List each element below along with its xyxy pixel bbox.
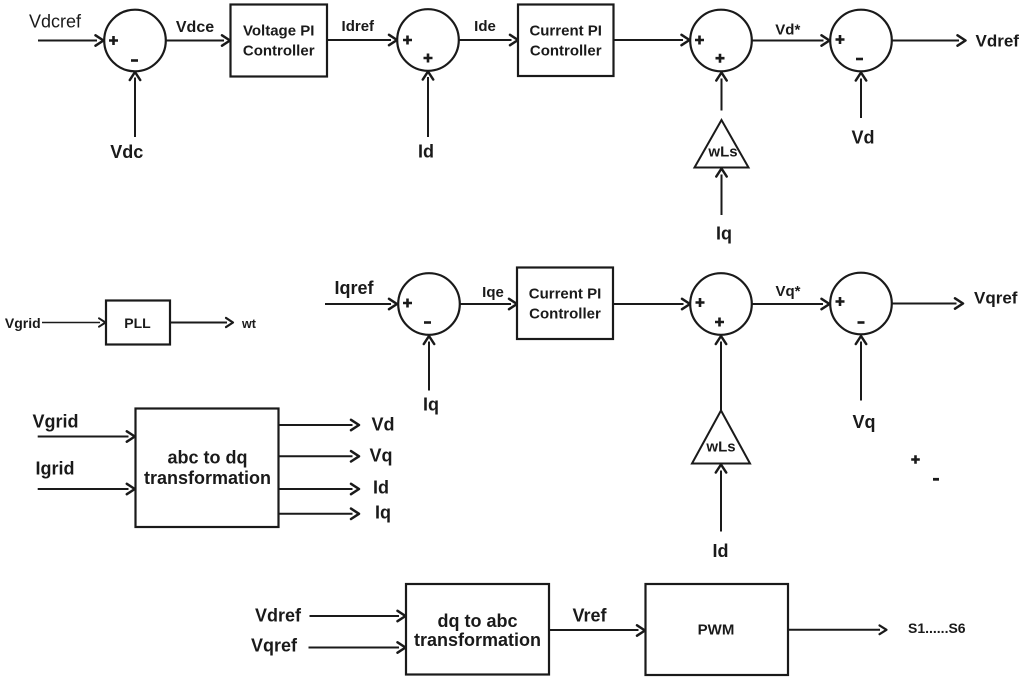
svg-text:Ide: Ide [474, 18, 496, 35]
svg-text:Controller: Controller [243, 42, 315, 59]
svg-text:Vq: Vq [369, 446, 392, 466]
svg-text:Vgrid: Vgrid [33, 411, 79, 431]
svg-text:Vdcref: Vdcref [29, 12, 82, 32]
svg-text:Vdref: Vdref [976, 32, 1020, 51]
svg-text:abc to dq: abc to dq [168, 448, 248, 468]
svg-text:dq to abc: dq to abc [438, 611, 518, 631]
svg-text:Voltage PI: Voltage PI [243, 22, 314, 39]
svg-text:Vdc: Vdc [110, 142, 143, 162]
svg-text:Iq: Iq [716, 224, 732, 244]
svg-text:Id: Id [713, 541, 729, 561]
svg-text:Id: Id [373, 478, 389, 498]
svg-text:transformation: transformation [414, 630, 541, 650]
svg-text:Controller: Controller [530, 42, 602, 59]
svg-text:Vd*: Vd* [775, 22, 800, 39]
svg-text:Vgrid: Vgrid [5, 315, 41, 331]
svg-text:Idref: Idref [342, 18, 376, 35]
svg-text:Vdce: Vdce [176, 19, 214, 36]
svg-text:Vdref: Vdref [255, 605, 302, 625]
svg-text:wt: wt [241, 317, 257, 331]
svg-text:Vqref: Vqref [251, 636, 298, 656]
svg-text:Vref: Vref [573, 606, 608, 626]
svg-text:Vq: Vq [852, 412, 875, 432]
svg-text:Vd: Vd [371, 415, 394, 435]
svg-text:transformation: transformation [144, 468, 271, 488]
svg-text:Iq: Iq [375, 503, 391, 523]
svg-text:Iq: Iq [423, 395, 439, 415]
svg-text:Iqref: Iqref [334, 278, 374, 298]
svg-text:Igrid: Igrid [36, 458, 75, 478]
svg-text:wLs: wLs [707, 144, 737, 161]
svg-text:Vd: Vd [851, 128, 874, 148]
svg-text:Id: Id [418, 142, 434, 162]
svg-text:Vqref: Vqref [974, 289, 1018, 308]
svg-text:Current PI: Current PI [529, 22, 602, 39]
svg-text:Iqe: Iqe [482, 284, 504, 301]
svg-text:Vq*: Vq* [775, 283, 800, 300]
svg-text:Current PI: Current PI [529, 285, 602, 302]
svg-text:PLL: PLL [124, 315, 151, 331]
svg-text:PWM: PWM [698, 622, 735, 639]
svg-text:S1......S6: S1......S6 [908, 620, 966, 636]
svg-text:wLs: wLs [705, 439, 735, 456]
svg-text:Controller: Controller [529, 305, 601, 322]
